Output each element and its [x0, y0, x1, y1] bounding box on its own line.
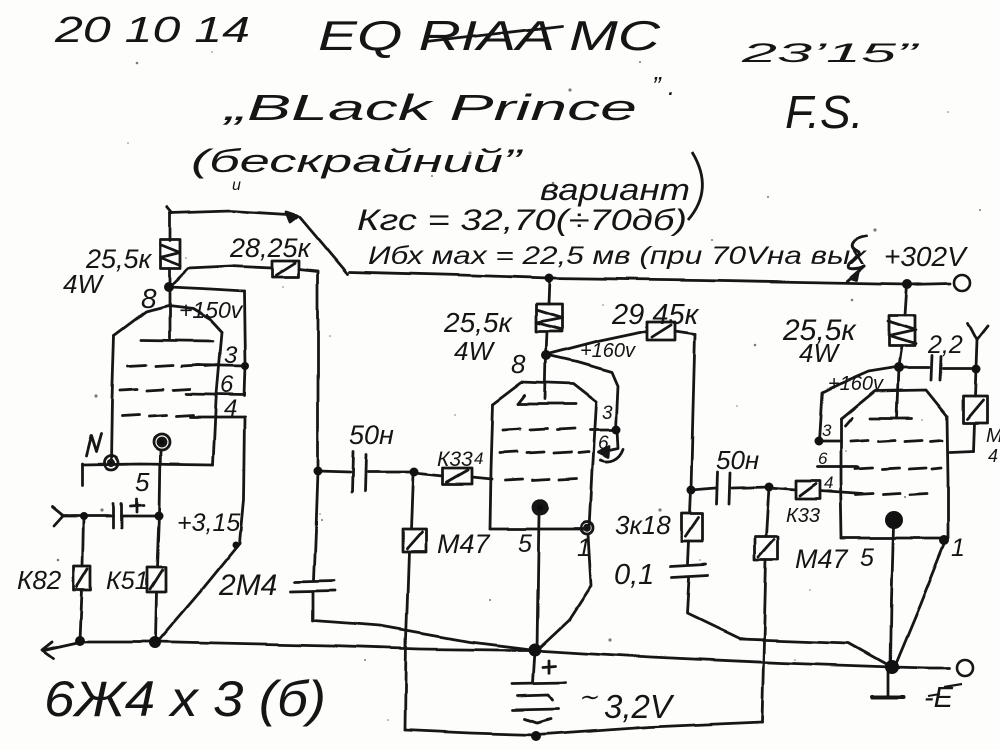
svg-text:+160v: +160v — [580, 340, 636, 362]
svg-text:4: 4 — [988, 446, 998, 466]
svg-text:„BLack Prince: „BLack Prince — [221, 87, 637, 128]
svg-text:28,25к: 28,25к — [229, 233, 312, 263]
svg-text:EQ RIAA MC: EQ RIAA MC — [318, 12, 661, 59]
svg-text:6: 6 — [818, 449, 828, 468]
svg-text:∼: ∼ — [578, 684, 598, 711]
svg-text:50н: 50н — [716, 445, 759, 475]
svg-text:6Ж4 х 3 (б): 6Ж4 х 3 (б) — [44, 671, 326, 727]
svg-text:К33: К33 — [786, 505, 820, 527]
svg-text:+160v: +160v — [828, 373, 884, 395]
svg-text:4W: 4W — [454, 336, 495, 366]
svg-text:8: 8 — [141, 283, 157, 314]
svg-text:3: 3 — [224, 342, 238, 369]
svg-text:+302V: +302V — [884, 241, 968, 272]
svg-text:4: 4 — [224, 395, 237, 422]
svg-text:1: 1 — [951, 534, 965, 562]
svg-text:2,2: 2,2 — [927, 331, 963, 359]
svg-text:и: и — [232, 177, 241, 194]
svg-text:F.S.: F.S. — [785, 86, 863, 138]
svg-text:25,5к: 25,5к — [443, 307, 513, 338]
svg-text:6: 6 — [598, 433, 609, 454]
svg-text:29,45к: 29,45к — [611, 299, 700, 331]
svg-text:Ибх мах = 22,5 мв (при 70Vна: Ибх мах = 22,5 мв (при 70Vна вых — [368, 242, 868, 270]
svg-text:5: 5 — [518, 530, 532, 558]
svg-text:0,1: 0,1 — [614, 559, 654, 591]
svg-text:3к18: 3к18 — [615, 510, 671, 540]
svg-text:4: 4 — [824, 473, 833, 492]
svg-text:4: 4 — [474, 449, 483, 468]
svg-text:+3,15: +3,15 — [177, 509, 240, 537]
svg-text:1: 1 — [577, 534, 591, 562]
svg-text:3,2V: 3,2V — [604, 688, 675, 725]
svg-text:6: 6 — [220, 371, 234, 398]
svg-text:Кгс = 32,70(÷70дб): Кгс = 32,70(÷70дб) — [357, 204, 687, 237]
svg-text:+150v: +150v — [179, 297, 244, 323]
svg-text:3: 3 — [822, 421, 832, 440]
svg-text:2М4: 2М4 — [218, 569, 277, 602]
svg-text:(бескрайний”: (бескрайний” — [191, 143, 523, 179]
svg-text:5: 5 — [860, 544, 874, 572]
svg-text:” .: ” . — [652, 71, 675, 101]
svg-text:3: 3 — [602, 403, 613, 424]
svg-text:4W: 4W — [63, 269, 104, 299]
svg-text:8: 8 — [511, 349, 526, 379]
svg-text:5: 5 — [135, 467, 150, 497]
svg-text:К82: К82 — [17, 565, 62, 595]
svg-text:4W: 4W — [799, 338, 840, 368]
svg-text:М: М — [986, 425, 1000, 447]
svg-text:М47: М47 — [437, 529, 491, 559]
svg-text:50н: 50н — [349, 420, 394, 450]
svg-text:20 10 14: 20 10 14 — [54, 9, 250, 50]
svg-text:К51: К51 — [106, 567, 149, 595]
svg-text:М47: М47 — [795, 544, 849, 574]
svg-text:23’15”: 23’15” — [740, 38, 920, 68]
svg-text:К33: К33 — [437, 448, 473, 471]
svg-text:вариант: вариант — [540, 172, 690, 207]
